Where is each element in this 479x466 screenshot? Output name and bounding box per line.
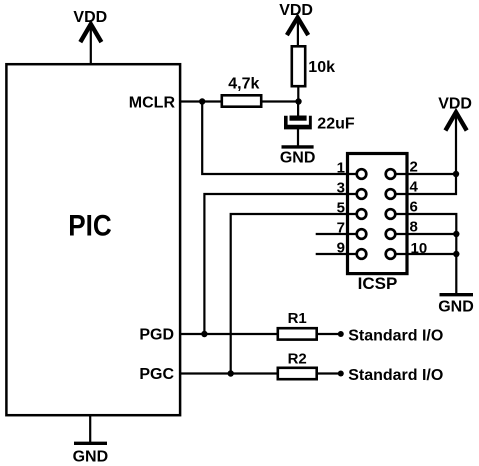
pin circle 6	[386, 209, 396, 219]
wire node to capacitor	[297, 102, 299, 117]
svg-text:PGD: PGD	[139, 327, 174, 344]
wire ICSP pin 5 to PGC net	[231, 214, 356, 374]
svg-text:10k: 10k	[308, 59, 335, 76]
power VDD symbol (right)	[438, 95, 472, 174]
connector J1 ICSP body	[348, 154, 408, 274]
wire ICSP pin 4 to VDD rail	[396, 174, 456, 194]
wire MCLR to R 4,7k	[180, 100, 221, 102]
resistor R2	[278, 350, 317, 379]
svg-text:5: 5	[337, 200, 345, 217]
terminal dot PGC I/O	[338, 371, 344, 377]
junction node 10k/cap	[295, 98, 301, 104]
wire PGD to R1	[180, 333, 278, 335]
wire R2 to Standard I/O	[317, 372, 340, 374]
wire ICSP pin 2 to VDD rail	[396, 173, 456, 175]
pin circle 5	[357, 209, 367, 219]
svg-text:7: 7	[337, 220, 345, 237]
wire stub ICSP pin 9	[316, 253, 356, 255]
resistor 4,7k	[222, 76, 261, 107]
junction node PGC/pin5	[228, 370, 234, 376]
wire 4,7k to node	[262, 100, 299, 102]
pin circle 2	[386, 169, 396, 179]
svg-text:R2: R2	[288, 350, 307, 367]
ground (right, below ICSP rail)	[438, 295, 474, 316]
pin circle 7	[357, 229, 367, 239]
ground (below PIC)	[73, 415, 109, 465]
wire PGC to R2	[180, 372, 278, 374]
pin circle 1	[357, 169, 367, 179]
resistor 10k	[292, 46, 335, 86]
svg-text:Standard I/O: Standard I/O	[348, 367, 443, 384]
power VDD symbol (above 10k)	[279, 2, 313, 47]
terminal dot PGD I/O	[338, 331, 344, 337]
junction node PGD/pin3	[201, 331, 207, 337]
wire MCLR node down to ICSP pin 1	[202, 102, 356, 175]
wire ICSP pin 10 to GND rail	[396, 253, 456, 255]
pin circle 9	[357, 249, 367, 259]
IC U1 PIC body	[6, 64, 180, 415]
capacitor C1 22uF (electrolytic)	[284, 116, 355, 133]
wire R1 to Standard I/O	[317, 333, 340, 335]
pin circle 8	[386, 229, 396, 239]
power VDD symbol (above PIC)	[73, 9, 107, 64]
svg-text:PIC: PIC	[68, 209, 112, 242]
wire ICSP pin 6 to GND rail	[396, 214, 456, 294]
svg-text:GND: GND	[280, 149, 316, 166]
svg-text:GND: GND	[438, 299, 474, 316]
junction node pin2/VDD	[453, 171, 459, 177]
junction node pin10/GND	[453, 251, 459, 257]
svg-text:ICSP: ICSP	[358, 274, 398, 293]
svg-text:R1: R1	[288, 310, 307, 327]
junction node pin8/GND	[453, 231, 459, 237]
wire ICSP pin 8 to GND rail	[396, 233, 456, 235]
svg-text:PGC: PGC	[139, 366, 174, 383]
wire 10k to node	[297, 86, 299, 102]
svg-text:1: 1	[337, 160, 345, 177]
svg-text:3: 3	[337, 180, 345, 197]
svg-text:22uF: 22uF	[317, 116, 355, 133]
wire ICSP pin 3 to PGD net	[204, 194, 356, 334]
pin circle 3	[357, 189, 367, 199]
svg-text:9: 9	[337, 240, 345, 257]
wire capacitor to ground	[297, 129, 299, 146]
pin circle 10	[386, 249, 396, 259]
pin circle 4	[386, 189, 396, 199]
wire stub ICSP pin 7	[316, 233, 356, 235]
svg-text:MCLR: MCLR	[129, 94, 176, 111]
ground (below capacitor)	[280, 147, 316, 166]
svg-text:Standard I/O: Standard I/O	[348, 327, 443, 344]
resistor R1	[278, 310, 317, 339]
junction node MCLR	[199, 98, 205, 104]
svg-text:4,7k: 4,7k	[228, 76, 259, 93]
svg-text:GND: GND	[73, 448, 109, 465]
